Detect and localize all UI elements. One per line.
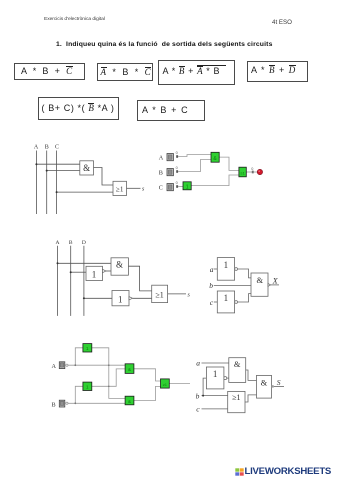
- title: [56, 41, 273, 48]
- pin output: [252, 171, 254, 174]
- pin C: [176, 185, 178, 188]
- answer box 6: A*B+C: [137, 100, 205, 121]
- svg-text:b: b: [209, 281, 213, 290]
- svg-text:s: s: [142, 187, 145, 193]
- wire g1 out to AND g4: [92, 348, 125, 399]
- wire a to AND: [202, 362, 229, 364]
- svg-text:&: &: [116, 259, 123, 269]
- wire C vertical: [56, 151, 58, 215]
- NOT gate n4: [217, 291, 237, 313]
- NOT gate n2: [112, 291, 133, 306]
- switch B: [167, 169, 173, 176]
- wire A to AND: [36, 163, 79, 165]
- svg-text:c: c: [196, 405, 200, 414]
- AND gate U1: [80, 161, 94, 175]
- wire g2 out to AND g3: [92, 369, 125, 386]
- wire c to OR: [202, 408, 228, 410]
- junction B: [46, 170, 48, 172]
- svg-text:&: &: [128, 367, 131, 372]
- svg-text:B: B: [69, 240, 73, 246]
- wire OR out to s: [127, 187, 141, 189]
- svg-text:B: B: [159, 169, 163, 176]
- AND gate u3: [251, 273, 271, 296]
- svg-text:X: X: [272, 277, 279, 286]
- header right: [272, 19, 292, 26]
- wire D to NOT n2: [84, 297, 112, 299]
- NOT gate g2: [83, 382, 92, 390]
- svg-text:≥1: ≥1: [155, 290, 163, 299]
- svg-text:1: 1: [224, 260, 229, 270]
- svg-text:1: 1: [118, 294, 123, 304]
- OR gate g5: [161, 379, 170, 388]
- wire A tap to NOT g1: [75, 348, 83, 365]
- svg-text:1: 1: [224, 293, 229, 303]
- svg-text:S: S: [277, 378, 281, 387]
- svg-text:&: &: [83, 163, 90, 173]
- svg-text:&: &: [234, 359, 241, 369]
- wire A to AND g3: [68, 364, 125, 366]
- wire g4 out to OR g5: [134, 386, 161, 400]
- wire NOT2 out to AND: [238, 294, 251, 302]
- switch A: [59, 362, 65, 369]
- answer box 1: A*B+notC: [14, 63, 85, 81]
- wire g5 out: [169, 383, 190, 385]
- AND gate u4: [229, 358, 246, 383]
- switch A: [167, 154, 173, 161]
- wire n2 out to OR: [133, 297, 152, 299]
- wire b to AND: [214, 284, 251, 286]
- wire AND out to OR: [94, 168, 114, 186]
- junction A: [35, 163, 37, 165]
- svg-text:c: c: [210, 298, 214, 307]
- NOT gate n1: [86, 266, 106, 280]
- wire B vertical: [70, 246, 72, 316]
- junction A tap: [74, 364, 76, 366]
- svg-text:a: a: [196, 358, 200, 367]
- svg-text:0: 0: [176, 166, 178, 170]
- wire AND2 out to S: [274, 385, 284, 387]
- OR gate u5: [228, 391, 245, 412]
- junction C: [56, 191, 58, 193]
- svg-text:A: A: [52, 363, 57, 370]
- wire NOT1 out to AND: [238, 269, 251, 278]
- wire OR out to AND2: [245, 395, 257, 402]
- crossing dot 1: [108, 364, 110, 366]
- NOT gate n5: [206, 367, 226, 389]
- LED output: [257, 169, 262, 174]
- pin B: [176, 170, 178, 173]
- wire AND out to OR: [128, 266, 151, 291]
- liveworksheets logo icon: [235, 468, 244, 476]
- wire B vertical: [46, 151, 48, 215]
- AND gate g3: [125, 364, 134, 374]
- switch C: [167, 184, 173, 191]
- AND gate u6: [257, 375, 274, 398]
- wire D vertical: [83, 246, 85, 316]
- svg-text:≥1: ≥1: [116, 186, 124, 194]
- pin A: [176, 155, 178, 158]
- svg-text:B: B: [45, 145, 49, 151]
- wire A vertical: [35, 151, 37, 215]
- AND gate g1: [211, 152, 219, 162]
- wire g3 out to OR g2: [191, 175, 239, 186]
- wire NOT out to AND: [227, 377, 229, 379]
- svg-text:&: &: [261, 378, 268, 388]
- junction b: [202, 395, 204, 397]
- AND gate g4: [125, 396, 134, 405]
- NOT gate n3: [217, 258, 237, 281]
- header left: [44, 17, 105, 22]
- svg-text:1: 1: [92, 269, 97, 279]
- svg-text:a: a: [210, 265, 214, 274]
- pin circle B: [66, 402, 68, 404]
- wire A to AND g1: [178, 155, 211, 157]
- svg-text:D: D: [82, 240, 86, 246]
- wire AND out to X: [271, 284, 279, 286]
- junction B: [70, 271, 72, 273]
- svg-text:C: C: [159, 184, 163, 191]
- wire AND1 out to AND2: [246, 370, 257, 380]
- junction A: [57, 262, 59, 264]
- wire A vertical: [57, 246, 59, 316]
- pin circle A: [66, 364, 68, 366]
- liveworksheets wordmark: [245, 466, 332, 477]
- switch B: [59, 400, 65, 407]
- wire a to NOT: [214, 268, 218, 270]
- wire C to OR: [57, 191, 113, 193]
- OR gate u2: [152, 285, 168, 302]
- junction B tap: [74, 402, 76, 404]
- AND gate u1: [111, 258, 128, 275]
- svg-text:A: A: [56, 240, 60, 246]
- answer box 5: (B+C)*(notB*A): [38, 97, 119, 120]
- answer box 3: A*notB + not(notA*B): [158, 60, 235, 85]
- svg-text:b: b: [196, 391, 200, 400]
- svg-text:≥1: ≥1: [163, 383, 167, 387]
- wire n1 out to AND: [106, 270, 111, 272]
- wire B to NOT n1: [71, 271, 86, 273]
- wire g3 out to OR g5: [134, 369, 161, 381]
- wire OR out to s: [168, 293, 186, 295]
- answer box 4: A*notB+notD: [247, 61, 308, 83]
- svg-text:s: s: [188, 292, 191, 298]
- svg-text:1: 1: [186, 185, 189, 191]
- svg-text:≥1: ≥1: [240, 171, 245, 176]
- svg-text:≥1: ≥1: [232, 393, 240, 402]
- svg-text:A: A: [34, 145, 39, 151]
- svg-text:0: 0: [251, 167, 253, 171]
- OR gate U2: [113, 181, 127, 195]
- OR gate g2: [239, 167, 246, 177]
- wire b tap to NOT: [203, 378, 206, 396]
- crossing dot 2: [108, 386, 110, 388]
- NOT gate g3: [183, 182, 191, 191]
- wire c to NOT: [214, 301, 218, 303]
- wire A to AND: [58, 262, 112, 264]
- svg-text:0: 0: [176, 181, 178, 185]
- svg-text:&: &: [256, 275, 263, 285]
- wire B to AND g1: [178, 160, 211, 172]
- wire B tap to NOT g2: [75, 386, 83, 403]
- wire B to AND g4: [68, 402, 125, 404]
- svg-text:B: B: [52, 402, 56, 409]
- svg-text:A: A: [159, 154, 164, 161]
- svg-text:&: &: [128, 399, 131, 404]
- wire g2 out to LED: [246, 171, 257, 173]
- svg-text:1: 1: [213, 369, 218, 379]
- wire b to OR: [202, 395, 228, 397]
- wire B to AND: [47, 170, 80, 172]
- junction D: [83, 297, 85, 299]
- NOT gate g1: [83, 344, 92, 352]
- svg-text:0: 0: [176, 151, 178, 155]
- svg-text:C: C: [55, 145, 59, 151]
- wire g1 out to OR g2: [219, 157, 239, 170]
- wire C to NOT g3: [178, 186, 183, 188]
- answer box 2: notA*B*notC: [97, 63, 153, 82]
